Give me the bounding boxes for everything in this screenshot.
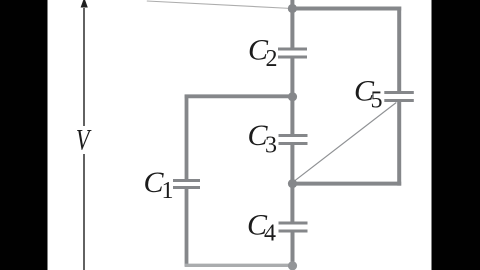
capacitor C3: [279, 134, 308, 145]
svg-text:2: 2: [266, 46, 278, 72]
wire: C4 to bottom node: [291, 233, 295, 267]
svg-text:5: 5: [371, 88, 383, 114]
wire: node B to C4: [290, 184, 294, 222]
bottom node: [288, 261, 297, 270]
wire: C1 branch lower: [185, 189, 189, 267]
wire: right vertical upper: [397, 7, 401, 92]
wire: C2 to node C: [290, 59, 294, 97]
label C1: [144, 166, 174, 204]
label C4: [247, 209, 276, 247]
svg-text:1: 1: [162, 178, 174, 204]
node A (top junction): [288, 4, 297, 13]
wire: top horizontal: [292, 7, 401, 11]
label C2: [248, 33, 278, 72]
label C3: [248, 119, 278, 159]
voltage arrow V: [81, 0, 88, 270]
node B (lower junction): [288, 179, 297, 188]
leader line from C5 to node B: [293, 103, 397, 183]
wire: right vertical lower: [397, 102, 401, 186]
svg-text:3: 3: [265, 133, 277, 159]
wire: mid-left horizontal: [185, 94, 293, 98]
leader line to top node: [147, 1, 292, 9]
wire: C1 branch upper: [185, 95, 189, 180]
svg-text:4: 4: [264, 221, 276, 247]
wire: center column top segment: [290, 0, 294, 48]
wire: node C to C3: [290, 96, 294, 134]
capacitor C1: [173, 179, 200, 189]
wire: lower horizontal (node B to right branch): [292, 182, 401, 186]
capacitor C5: [384, 91, 414, 102]
label C5: [354, 75, 383, 114]
wire: bottom horizontal: [185, 264, 293, 267]
capacitor C4: [279, 222, 308, 233]
node C (middle junction): [288, 92, 297, 101]
wire: C3 to node B: [290, 145, 294, 184]
capacitor C2: [278, 48, 307, 59]
